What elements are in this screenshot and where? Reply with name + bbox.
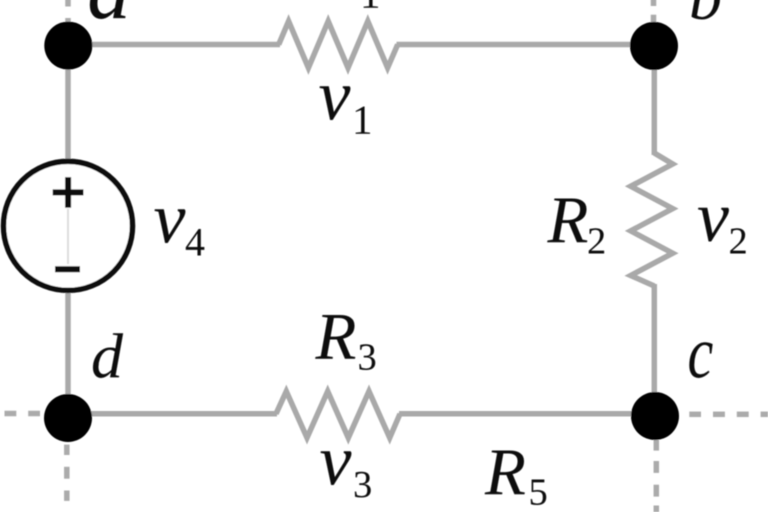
svg-text:v: v — [697, 177, 729, 257]
svg-text:c: c — [688, 313, 714, 394]
svg-text:1: 1 — [360, 0, 381, 16]
wire R3 to c — [399, 411, 655, 417]
svg-text:R: R — [315, 299, 357, 373]
svg-text:d: d — [91, 321, 124, 392]
wire R1 to b — [397, 42, 655, 48]
node c — [631, 392, 679, 440]
svg-text:R: R — [547, 183, 589, 257]
svg-text:2: 2 — [587, 220, 606, 262]
dashed grid continuation right of node c — [689, 412, 768, 418]
svg-text:3: 3 — [353, 464, 372, 506]
svg-text:b: b — [689, 0, 722, 34]
wire voltage source to d — [65, 291, 71, 414]
svg-text:v: v — [320, 421, 352, 501]
svg-text:5: 5 — [529, 471, 548, 512]
dashed grid continuation above node a — [65, 0, 71, 29]
svg-text:2: 2 — [729, 221, 748, 263]
wire a to voltage source — [65, 45, 71, 161]
node d — [44, 394, 92, 442]
resistor R1 — [279, 21, 398, 68]
resistor R3 — [276, 391, 400, 438]
svg-text:v: v — [319, 55, 351, 135]
dashed grid continuation below node c — [654, 440, 660, 512]
svg-text:R: R — [321, 0, 363, 11]
svg-text:1: 1 — [352, 97, 373, 143]
wire a to R1 — [68, 42, 280, 48]
voltage source V4 — [4, 161, 133, 290]
resistor R2 — [631, 153, 673, 286]
svg-text:R: R — [484, 435, 526, 509]
node a — [44, 22, 92, 70]
svg-text:a: a — [87, 0, 131, 37]
plus sign — [53, 177, 84, 208]
minus sign — [55, 266, 80, 272]
faint internal lead — [67, 209, 69, 264]
dashed grid continuation above node b — [651, 0, 657, 26]
svg-text:4: 4 — [185, 219, 205, 264]
svg-text:v: v — [154, 178, 186, 258]
wire d to R3 — [68, 411, 277, 417]
svg-text:3: 3 — [358, 337, 377, 379]
dashed grid continuation below node d — [64, 445, 70, 501]
dashed grid continuation left of node d — [5, 411, 41, 417]
wire b to R2 — [652, 45, 658, 156]
wire R2 to c — [652, 284, 658, 414]
node b — [630, 22, 678, 70]
